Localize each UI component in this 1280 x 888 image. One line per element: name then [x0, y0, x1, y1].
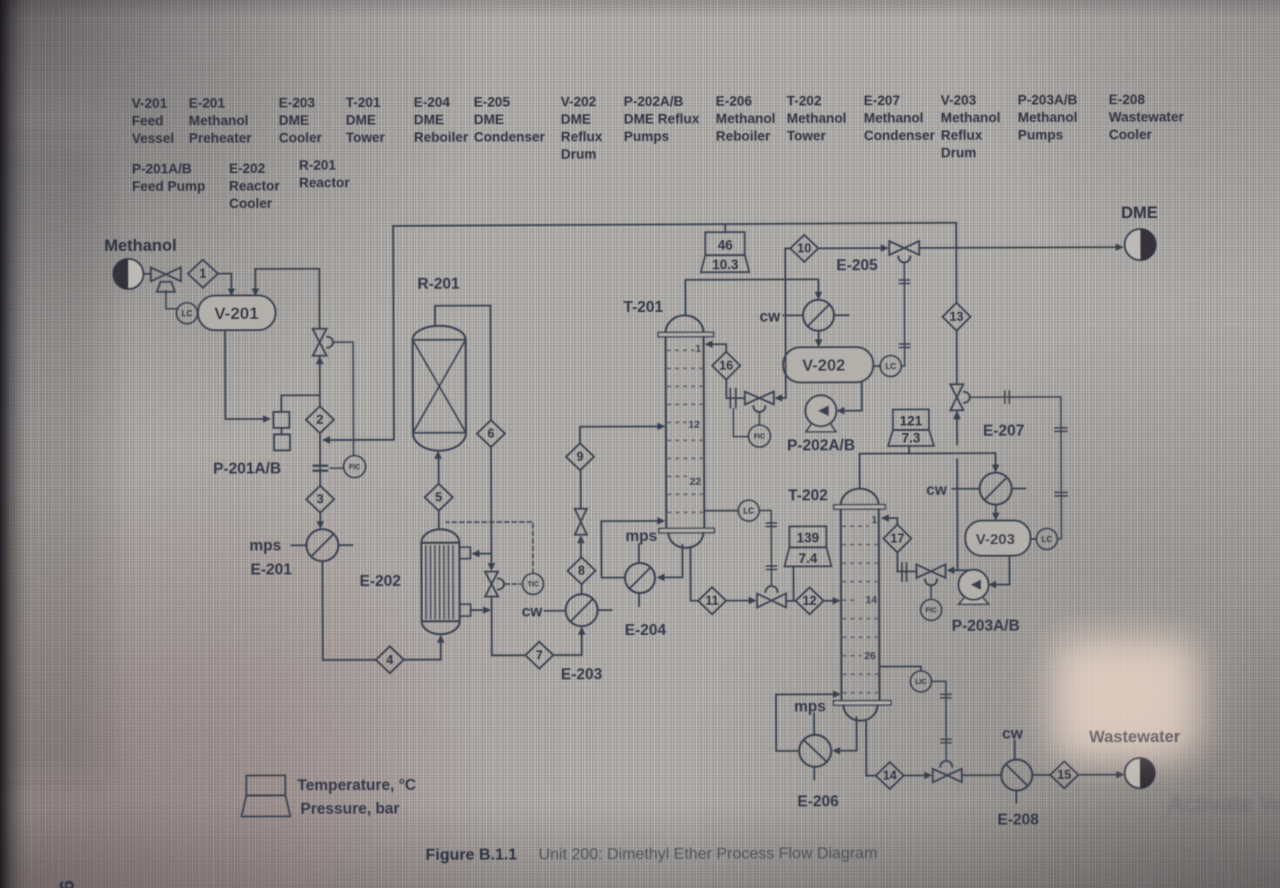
svg-text:T-202: T-202 — [788, 487, 828, 504]
svg-text:Methanol: Methanol — [189, 113, 249, 128]
pump P-201B — [274, 434, 290, 450]
svg-text:3: 3 — [317, 492, 324, 506]
wire reflux to T-202 top — [881, 514, 917, 571]
svg-text:Methanol: Methanol — [716, 111, 776, 126]
flag anchor stream 13 — [908, 446, 910, 453]
stream diamond 16 — [712, 352, 740, 380]
svg-text:1: 1 — [871, 514, 877, 526]
svg-text:Pumps: Pumps — [1018, 127, 1063, 142]
svg-text:10.3: 10.3 — [712, 257, 739, 272]
tower T-202 — [833, 489, 891, 721]
svg-text:P-202A/B: P-202A/B — [787, 437, 855, 454]
wire valve to diamond 9 — [580, 471, 582, 509]
svg-text:Cooler: Cooler — [279, 130, 323, 145]
tap wire orifice to FIC — [733, 409, 748, 437]
wire T-202 bottoms to E-206 — [832, 717, 857, 754]
svg-text:8: 8 — [578, 564, 585, 578]
equipment legend row 1 — [132, 92, 1185, 164]
svg-text:14: 14 — [865, 594, 877, 606]
svg-text:V-201: V-201 — [132, 96, 168, 111]
svg-text:V-202: V-202 — [802, 357, 845, 375]
signal wire LC to bottoms valve — [931, 681, 951, 759]
orifice flanges on reflux line — [730, 389, 736, 408]
svg-text:mps: mps — [625, 528, 657, 545]
wire T-202 overhead to E-207 — [860, 453, 1000, 488]
cooler E-208 — [1001, 759, 1032, 790]
wire cw to E-203 — [545, 610, 566, 612]
wire T-202 bottom LC — [880, 666, 921, 671]
svg-text:P-201A/B: P-201A/B — [132, 161, 192, 176]
svg-text:LIC: LIC — [915, 679, 926, 686]
svg-text:DME: DME — [474, 112, 504, 127]
svg-text:E-201: E-201 — [250, 561, 292, 578]
stream diamond 13 — [942, 303, 970, 331]
svg-text:1: 1 — [199, 267, 206, 281]
svg-text:E-207: E-207 — [983, 423, 1024, 440]
stream diamond 15 — [1050, 761, 1078, 788]
wire E-205 cw out stub — [835, 314, 849, 316]
svg-text:4: 4 — [386, 653, 393, 667]
drum V-203 — [965, 521, 1030, 556]
svg-text:Condenser: Condenser — [474, 129, 546, 144]
gate valve stream 8-9 — [575, 509, 587, 535]
svg-text:Reactor: Reactor — [229, 178, 280, 193]
wire E-201 steam out stub — [338, 544, 352, 546]
wire recycle from pump junction (jump over overhead line) — [956, 459, 958, 570]
dashed tap to FIC — [330, 467, 343, 469]
stream diamond 6 — [477, 420, 505, 447]
instrument LC (V-202) — [873, 355, 901, 376]
svg-text:E-207: E-207 — [864, 93, 900, 108]
stream diamond 14 — [866, 762, 904, 789]
svg-text:Feed Pump: Feed Pump — [132, 179, 205, 194]
svg-text:DME: DME — [414, 112, 444, 127]
svg-text:14: 14 — [883, 769, 897, 783]
stream diamond 5 — [425, 484, 453, 511]
svg-text:T-202: T-202 — [787, 93, 822, 108]
wire T-201 bottoms to E-204 — [656, 545, 682, 581]
stream diamond 8 — [567, 557, 595, 584]
wire V-201 bottom to P-201 — [225, 330, 271, 423]
svg-text:Figure B.1.1: Figure B.1.1 — [426, 846, 518, 863]
svg-text:Methanol: Methanol — [1018, 110, 1078, 125]
svg-text:DME: DME — [1121, 204, 1158, 222]
wire V-203 to P-203 — [988, 556, 1010, 589]
wire reactor effluent main vertical — [487, 306, 496, 572]
svg-text:Reflux: Reflux — [561, 129, 603, 144]
svg-text:R-201: R-201 — [299, 158, 337, 173]
wire top distillate line — [785, 244, 889, 252]
wire E-206 condensate stub — [813, 767, 815, 779]
methanol feed stream symbol — [113, 259, 143, 289]
svg-text:DME Reflux: DME Reflux — [624, 111, 700, 126]
pump P-202A/B — [805, 395, 836, 432]
svg-text:V-203: V-203 — [941, 93, 977, 108]
svg-text:Methanol: Methanol — [104, 237, 176, 255]
orifice flanges on T-202 reflux line — [902, 563, 907, 581]
svg-text:E-203: E-203 — [561, 666, 603, 683]
svg-text:E-206: E-206 — [716, 94, 753, 109]
svg-text:7.4: 7.4 — [799, 551, 818, 566]
exchanger E-203 — [566, 594, 598, 626]
svg-text:Reactor: Reactor — [299, 175, 350, 190]
svg-text:E-208: E-208 — [997, 811, 1039, 828]
signal wire recycle valve to LC V-203 — [970, 391, 1068, 539]
svg-text:121: 121 — [900, 413, 923, 428]
legend T/P flag symbol — [241, 775, 290, 816]
wire main vertical pump discharge line — [316, 356, 324, 530]
wire E-205 to V-202 — [815, 331, 823, 348]
svg-text:5: 5 — [435, 490, 442, 504]
stream diamond 17 — [883, 524, 911, 552]
instrument FIC (T-201 reflux) — [748, 425, 770, 447]
vessel V-201 — [198, 295, 276, 330]
DME product control valve — [889, 241, 919, 263]
exchanger E-201 — [306, 529, 338, 561]
svg-text:E-202: E-202 — [229, 161, 266, 176]
bottoms control valve (T-201) — [757, 586, 786, 608]
svg-text:Wastewater: Wastewater — [1109, 109, 1185, 124]
svg-text:LC: LC — [743, 507, 754, 516]
svg-text:mps: mps — [249, 537, 281, 554]
wire E-204 condensate stub — [638, 593, 640, 606]
svg-text:V-201: V-201 — [214, 304, 259, 323]
exchanger E-202 — [421, 529, 470, 634]
wire E-207 cw out stub — [1012, 488, 1025, 490]
svg-text:Preheater: Preheater — [189, 130, 252, 145]
svg-text:Drum: Drum — [941, 145, 977, 160]
svg-text:12: 12 — [688, 419, 700, 431]
wire E-206 vapor return to T-202 — [776, 690, 841, 751]
wire E-208 to diamond 15 — [1032, 774, 1050, 776]
svg-text:26: 26 — [864, 650, 876, 662]
svg-text:cw: cw — [1002, 726, 1024, 743]
instrument FIC (T-202 reflux) — [921, 599, 942, 620]
svg-text:46: 46 — [718, 238, 734, 253]
wire stub into E-202 shell inlet — [471, 550, 491, 558]
pump P-201A — [273, 412, 289, 428]
dashed signal TIC to reactor inlet — [446, 522, 533, 573]
svg-text:FIC: FIC — [754, 434, 765, 441]
svg-text:11: 11 — [705, 594, 718, 608]
svg-text:cw: cw — [759, 308, 781, 325]
wire mps to E-201 — [291, 544, 306, 546]
svg-text:DME: DME — [561, 112, 591, 127]
wire cw into E-208 — [1014, 741, 1016, 759]
svg-text:P-203A/B: P-203A/B — [1018, 92, 1078, 107]
wire cw to E-207 — [952, 488, 979, 490]
svg-text:P-203A/B: P-203A/B — [952, 618, 1020, 635]
svg-text:LC: LC — [182, 309, 193, 318]
wire E-203 cw out stub — [598, 609, 612, 611]
svg-text:Methanol: Methanol — [787, 111, 847, 126]
reflux control valve FIC (T-201) — [745, 391, 774, 425]
svg-text:13: 13 — [950, 310, 964, 324]
wire diamond 1 to V-201 — [218, 274, 235, 297]
svg-text:DME: DME — [346, 113, 376, 128]
svg-text:Reflux: Reflux — [941, 128, 983, 143]
svg-text:Vessel: Vessel — [132, 131, 174, 146]
signal wire kickback valve to FIC — [334, 342, 354, 456]
drum V-202 — [783, 347, 873, 382]
svg-text:LC: LC — [1042, 535, 1053, 544]
svg-text:T-201: T-201 — [346, 95, 381, 110]
svg-text:DME: DME — [279, 113, 309, 128]
instrument LC (V-203) — [1030, 528, 1057, 549]
flag anchor stream 10 — [724, 224, 726, 232]
flag anchor stream 12 — [792, 566, 794, 600]
wire recycle downcomer joins feed — [321, 226, 394, 444]
kickback control valve FIC — [313, 329, 334, 356]
wire diamond 11 to valve — [726, 597, 757, 605]
instrument LC (V-201) — [176, 303, 197, 324]
wire kickback recycle into V-201 — [252, 269, 320, 329]
recycle control valve — [950, 384, 970, 410]
T/P flag 121 7.3 — [888, 409, 934, 446]
wire diamond 15 to wastewater — [1078, 771, 1124, 779]
svg-text:6: 6 — [57, 880, 79, 888]
svg-text:FIC: FIC — [925, 607, 936, 614]
svg-text:Methanol: Methanol — [941, 110, 1001, 125]
svg-text:cw: cw — [522, 603, 544, 620]
wire valve to E-208 — [962, 774, 1001, 776]
wire R-201 top outlet — [435, 306, 491, 326]
svg-text:P-202A/B: P-202A/B — [624, 94, 684, 109]
stream diamond 3 — [306, 486, 334, 513]
svg-text:E-205: E-205 — [836, 257, 878, 274]
wire valve to diamond 12 — [786, 600, 795, 602]
wire E-207 to V-203 — [992, 505, 1000, 521]
svg-text:22: 22 — [689, 476, 701, 488]
svg-text:2: 2 — [316, 413, 323, 427]
equipment legend row 2 — [132, 158, 351, 212]
wire pump discharge junction — [946, 566, 970, 574]
svg-text:15: 15 — [1057, 768, 1071, 782]
svg-text:9: 9 — [577, 450, 584, 464]
wire E-208 cw out stub — [1015, 791, 1017, 803]
wire diamond 14 to valve — [904, 772, 933, 780]
wire reflux to T-201 top — [705, 340, 745, 398]
svg-text:Pumps: Pumps — [624, 129, 669, 144]
wire P-201 discharge — [281, 395, 320, 412]
reboiler E-206 — [799, 735, 831, 767]
tower T-201 — [658, 315, 714, 548]
svg-text:Reboiler: Reboiler — [414, 130, 469, 145]
wastewater product stream symbol — [1125, 758, 1155, 788]
svg-text:E-204: E-204 — [414, 95, 451, 110]
svg-text:FIC: FIC — [349, 464, 360, 471]
svg-text:R-201: R-201 — [417, 276, 460, 293]
wire E-202 top to R-201 bottom — [434, 451, 442, 530]
reactor R-201 — [413, 326, 466, 451]
wire top header line — [393, 223, 956, 226]
arrow up into kickback valve — [316, 356, 324, 365]
condenser E-207 — [980, 473, 1012, 505]
feed control valve — [151, 267, 181, 292]
svg-text:Cooler: Cooler — [1109, 127, 1153, 142]
svg-text:Activate W: Activate W — [1168, 791, 1280, 818]
svg-text:Methanol: Methanol — [864, 110, 924, 125]
svg-text:Condenser: Condenser — [864, 128, 936, 143]
signal wire valve to LC V-202 — [899, 262, 909, 366]
DME product stream symbol — [1125, 229, 1156, 260]
svg-text:1: 1 — [695, 343, 701, 355]
svg-text:P-201A/B: P-201A/B — [213, 460, 281, 477]
svg-text:Cooler: Cooler — [229, 196, 273, 211]
svg-text:E-206: E-206 — [797, 793, 839, 810]
svg-text:10: 10 — [797, 241, 811, 255]
svg-text:E-208: E-208 — [1109, 92, 1146, 107]
svg-text:7: 7 — [536, 648, 543, 662]
wire T-201 overhead to E-205 — [685, 279, 822, 315]
wire E-203 up to valve — [577, 535, 585, 594]
stream diamond 4 — [376, 646, 404, 673]
wire V-202 to P-202 — [836, 382, 862, 414]
wire diamond 12 to T-202 — [824, 597, 841, 605]
wire T-202 bottoms to diamond 14 — [865, 720, 867, 775]
T/P flag 139 7.4 — [784, 526, 831, 566]
wire recycle riser right side — [955, 223, 958, 384]
wire E-201 to E-202 bottom — [322, 561, 444, 660]
dashed signal valve to TIC — [506, 583, 521, 585]
svg-text:V-202: V-202 — [561, 94, 597, 109]
svg-text:Drum: Drum — [561, 147, 597, 162]
svg-text:Reboiler: Reboiler — [716, 128, 771, 143]
wire T-201 bottoms LC — [704, 510, 738, 512]
svg-text:E-205: E-205 — [474, 94, 511, 109]
wire T-201 bottoms to diamond 11 — [690, 547, 698, 601]
signal wire LC to bottoms valve — [759, 510, 776, 584]
bypass control valve TIC — [485, 572, 504, 597]
wastewater control valve (T-202 bottoms) — [933, 761, 962, 783]
stream diamond 9 — [566, 443, 594, 470]
svg-text:V-203: V-203 — [976, 531, 1015, 548]
wire E-204 vapor return to T-201 — [601, 517, 665, 578]
reflection highlight over diagram — [1058, 643, 1192, 755]
svg-text:E-201: E-201 — [189, 96, 226, 111]
condenser E-205 — [803, 300, 834, 331]
wire valve to DME product — [919, 243, 1124, 251]
reflux control valve FIC (T-202) — [916, 564, 945, 599]
signal wire valve to LC — [166, 291, 177, 309]
wire to T-201 feed — [580, 423, 666, 444]
svg-text:6: 6 — [487, 427, 494, 441]
svg-text:17: 17 — [890, 531, 904, 545]
instrument FIC (P-201 line) — [344, 456, 366, 478]
stream diamond 2 — [306, 406, 334, 433]
wire bypass to E-203 — [492, 596, 586, 655]
svg-text:7.3: 7.3 — [902, 430, 921, 445]
svg-text:139: 139 — [797, 530, 820, 545]
svg-text:Temperature, °C: Temperature, °C — [297, 777, 416, 794]
svg-text:12: 12 — [803, 594, 817, 608]
svg-text:LC: LC — [885, 362, 896, 371]
svg-text:Tower: Tower — [346, 130, 386, 145]
svg-text:16: 16 — [719, 359, 733, 373]
wire feed to valve — [143, 273, 150, 275]
stream diamond 10 — [790, 235, 818, 262]
stream diamond 11 — [698, 587, 726, 614]
reboiler E-204 — [625, 563, 655, 593]
svg-text:mps: mps — [794, 698, 826, 715]
stream diamond 12 — [796, 587, 824, 614]
svg-text:E-204: E-204 — [625, 622, 667, 639]
orifice plate on stream 3 — [314, 466, 328, 471]
wire between pumps — [280, 428, 282, 434]
stream diamond 1 — [188, 260, 218, 288]
svg-text:T-201: T-201 — [623, 299, 663, 316]
wire stub out of E-202 shell outlet — [471, 606, 492, 614]
svg-text:Unit 200: Dimethyl Ether Proce: Unit 200: Dimethyl Ether Process Flow Di… — [539, 845, 878, 863]
wire cw to E-205 — [784, 314, 803, 316]
wire mps into E-204 — [638, 544, 640, 563]
pump P-203A/B — [958, 570, 988, 605]
T/P flag 46 10.3 — [701, 232, 750, 272]
arrow up into recycle valve — [953, 410, 961, 444]
instrument TIC — [522, 573, 543, 594]
wire pump discharge up to product line — [774, 248, 786, 401]
svg-text:cw: cw — [926, 482, 948, 499]
instrument LC (T-201) — [738, 500, 759, 521]
svg-text:TIC: TIC — [527, 581, 538, 588]
instrument LC (T-202) — [910, 671, 931, 692]
svg-text:Tower: Tower — [787, 128, 827, 143]
wire mps into E-206 — [813, 713, 815, 734]
svg-text:Pressure, bar: Pressure, bar — [300, 800, 399, 817]
svg-text:E-203: E-203 — [279, 95, 316, 110]
svg-text:Feed: Feed — [132, 113, 164, 128]
stream diamond 7 — [525, 642, 553, 669]
svg-text:E-202: E-202 — [359, 573, 400, 590]
